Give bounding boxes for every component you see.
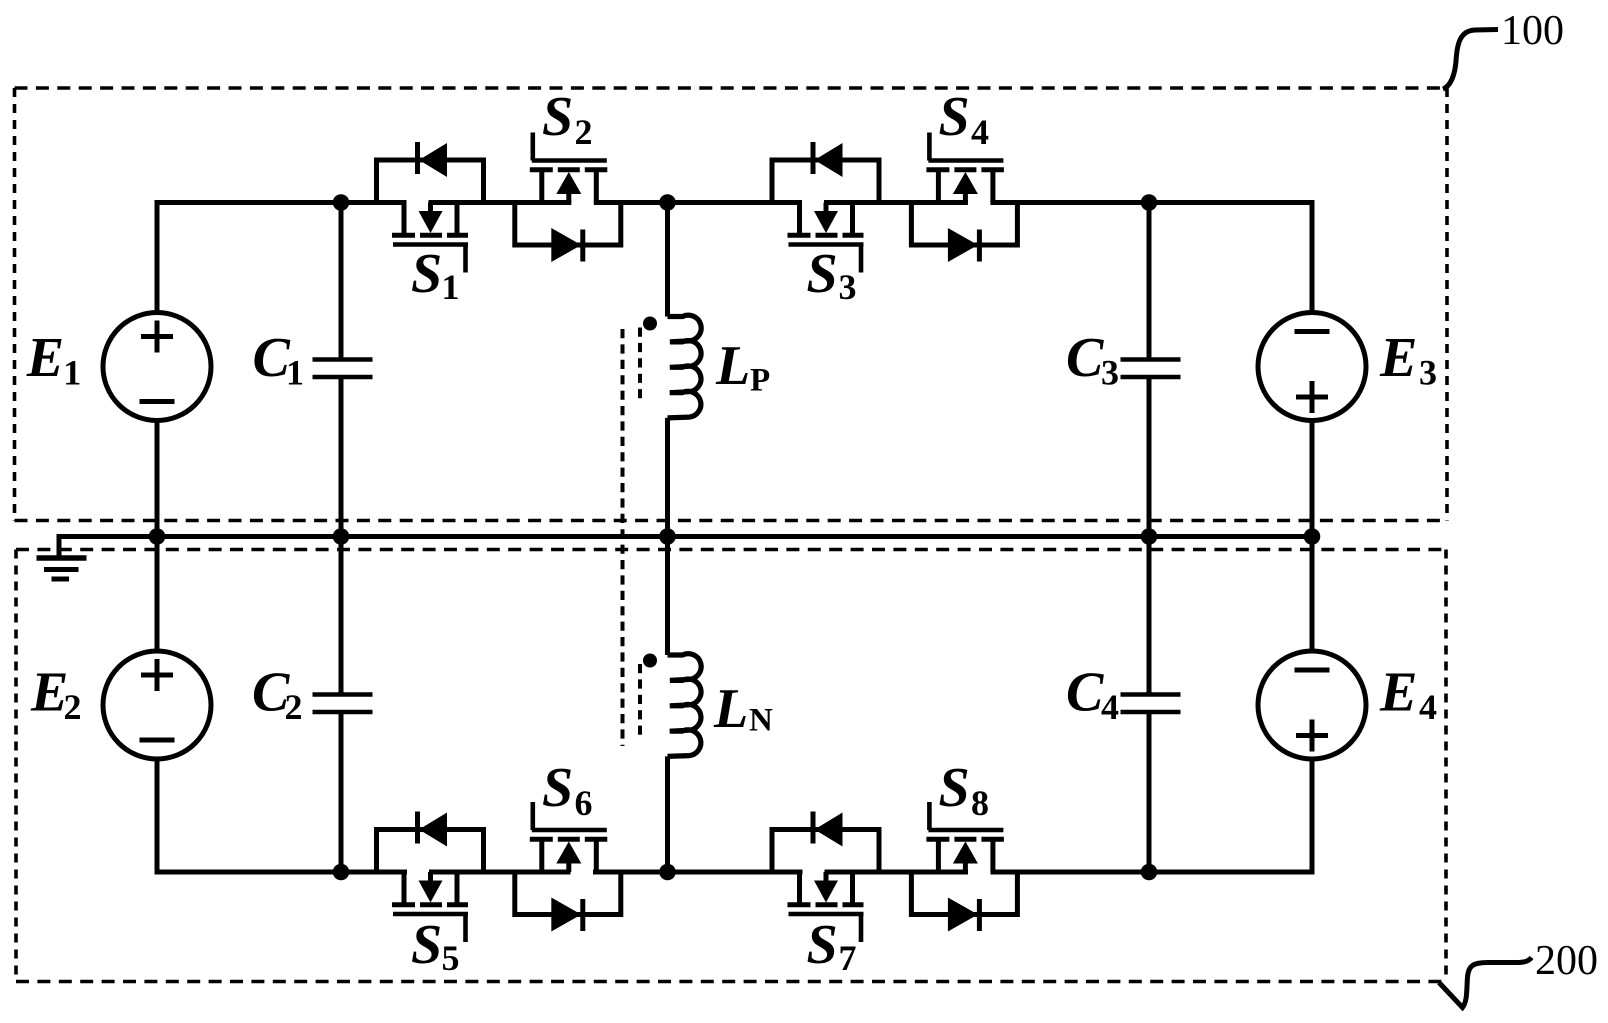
svg-text:2: 2 [64, 687, 82, 727]
leader line to label 100 [1443, 30, 1498, 90]
node: LP,LN / middle rail [659, 528, 676, 545]
voltage source E3 [1258, 313, 1437, 421]
label 200 [1535, 938, 1598, 984]
capacitor C4 [1066, 537, 1181, 873]
svg-text:S: S [807, 243, 838, 305]
svg-text:C: C [1066, 662, 1104, 724]
node: LP / top rail [659, 194, 676, 211]
svg-text:1: 1 [442, 267, 460, 307]
svg-text:C: C [253, 327, 291, 389]
ground [37, 537, 87, 580]
core line at LN (dashed) [638, 664, 642, 741]
core line (shared, dashed) [621, 329, 625, 746]
switch S4 (MOSFET with body diode) [911, 86, 1017, 262]
wire: LN top lead [665, 537, 670, 656]
switch S7 (MOSFET with body diode) [772, 812, 879, 979]
svg-text:E: E [1379, 327, 1417, 389]
node: C1 / top rail [333, 194, 350, 211]
wire: E1 bottom lead [155, 421, 160, 537]
switch S8 (MOSFET with body diode) [911, 757, 1017, 932]
wire: LP top lead [665, 203, 670, 317]
wire: top rail between S2 and S3 [594, 200, 802, 205]
svg-text:1: 1 [63, 353, 81, 393]
label 100 [1501, 8, 1564, 54]
svg-text:2: 2 [285, 687, 303, 727]
wire: LN bottom lead [665, 756, 670, 872]
voltage source E4 [1258, 651, 1437, 759]
wire: bottom rail between S7 and S8 [825, 870, 969, 875]
core line at LP (dashed) [638, 328, 642, 404]
wire: bottom rail right segment + E4 bottom lead [991, 759, 1313, 872]
svg-text:S: S [411, 914, 442, 976]
wire: top rail between S3 and S4 [824, 200, 968, 205]
svg-text:E: E [26, 327, 64, 389]
wire: top rail right segment + E3 top lead [990, 203, 1312, 313]
converter unit 100 boundary (dashed box) [15, 88, 1448, 521]
svg-text:100: 100 [1501, 8, 1564, 54]
switch S3 (MOSFET with body diode) [772, 142, 879, 307]
svg-text:6: 6 [575, 783, 593, 823]
node: E1,E2 / middle rail [149, 528, 166, 545]
voltage source E2 [30, 651, 211, 759]
svg-text:1: 1 [286, 353, 304, 393]
svg-text:3: 3 [1101, 353, 1119, 393]
node: LN / bottom rail [659, 864, 676, 881]
capacitor C2 [252, 537, 373, 873]
LN polarity dot [643, 654, 657, 668]
svg-text:4: 4 [971, 112, 989, 152]
LP polarity dot [643, 317, 657, 331]
inductor LP [668, 315, 771, 418]
converter unit 200 boundary (dashed box) [16, 550, 1446, 982]
svg-text:3: 3 [839, 267, 857, 307]
svg-text:4: 4 [1419, 687, 1437, 727]
svg-text:L: L [715, 335, 750, 397]
wire: E2 top lead [155, 537, 160, 652]
svg-text:S: S [939, 86, 970, 148]
svg-text:S: S [542, 86, 573, 148]
svg-text:E: E [1379, 662, 1417, 724]
switch S2 (MOSFET with body diode) [515, 86, 621, 262]
wire: top rail left segment + E1 top lead [157, 203, 407, 313]
capacitor C3 [1066, 203, 1181, 537]
wire: top rail between S1 and S2 [429, 200, 572, 205]
node: C3 / top rail [1141, 194, 1158, 211]
svg-text:C: C [1066, 327, 1104, 389]
svg-text:S: S [807, 914, 838, 976]
node: C4 / bottom rail [1141, 864, 1158, 881]
node: C1,C2 / middle rail [333, 528, 350, 545]
capacitor C1 [253, 203, 373, 537]
svg-text:L: L [713, 678, 748, 740]
wire: bottom rail left segment + E2 bottom lead [157, 759, 407, 872]
svg-text:4: 4 [1101, 687, 1119, 727]
wire: bottom rail between S5 and S6 [429, 870, 571, 875]
switch S5 (MOSFET with body diode) [377, 812, 484, 979]
svg-text:S: S [411, 243, 442, 305]
switch S6 (MOSFET with body diode) [515, 757, 621, 932]
svg-text:P: P [750, 363, 770, 399]
svg-text:3: 3 [1419, 353, 1437, 393]
svg-text:7: 7 [839, 938, 857, 978]
svg-text:S: S [542, 757, 573, 819]
inductor LN [668, 654, 774, 757]
svg-text:5: 5 [442, 938, 460, 978]
wire: E4 top lead [1310, 537, 1315, 652]
svg-text:200: 200 [1535, 938, 1598, 984]
svg-text:N: N [749, 703, 773, 739]
node: C3,C4 / middle rail [1141, 528, 1158, 545]
wire: LP bottom lead [665, 418, 670, 537]
wire: E3 bottom lead [1310, 421, 1315, 537]
leader line to label 200 [1439, 958, 1532, 1008]
node: E3,E4 / middle rail [1304, 528, 1321, 545]
wire: bottom rail between S6 and S7 [593, 870, 803, 875]
node: C2 / bottom rail [333, 864, 350, 881]
svg-text:S: S [939, 757, 970, 819]
svg-text:2: 2 [575, 112, 593, 152]
switch S1 (MOSFET with body diode) [377, 142, 484, 307]
wire: middle rail with ground stub [59, 537, 1312, 559]
voltage source E1 [26, 313, 211, 421]
svg-text:8: 8 [971, 783, 989, 823]
